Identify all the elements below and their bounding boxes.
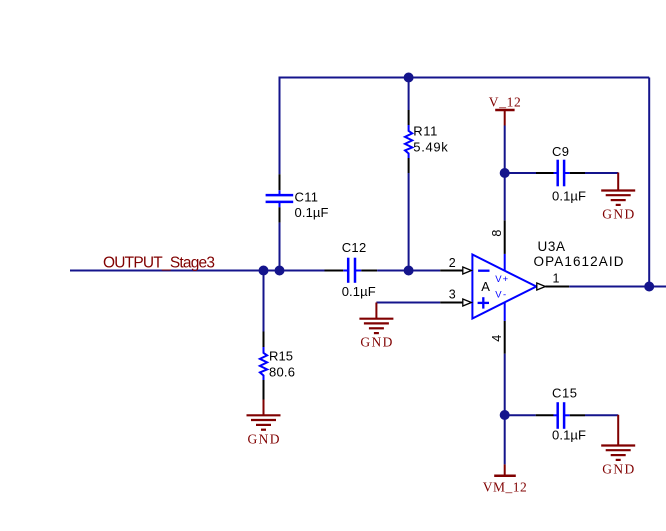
svg-text:0.1µF: 0.1µF xyxy=(552,188,586,203)
svg-text:R11: R11 xyxy=(413,123,437,138)
junction at C11 branch xyxy=(275,266,285,276)
svg-text:R15: R15 xyxy=(269,348,293,363)
svg-text:3: 3 xyxy=(449,288,456,302)
wire: pin8 to junction xyxy=(504,173,506,220)
svg-text:GND: GND xyxy=(248,431,280,446)
wire: left vertical to C11 top xyxy=(279,77,281,175)
junction at output feedback xyxy=(644,282,654,292)
junction at pin4/C15 xyxy=(500,410,510,420)
wire: output to right edge xyxy=(569,286,666,288)
svg-text:0.1µF: 0.1µF xyxy=(295,205,329,220)
ground GND right of C15 xyxy=(601,415,635,477)
capacitor C9 xyxy=(536,144,586,203)
svg-text:80.6: 80.6 xyxy=(269,364,295,379)
ground GND at pin3 xyxy=(359,303,393,350)
svg-text:V-: V- xyxy=(495,290,506,301)
wire: OUTPUT_Stage3 horizontal xyxy=(70,270,325,272)
svg-text:OPA1612AID: OPA1612AID xyxy=(534,254,624,269)
svg-text:GND: GND xyxy=(602,462,634,477)
svg-text:U3A: U3A xyxy=(538,239,566,254)
power VM_12 xyxy=(483,464,527,494)
resistor R11 xyxy=(405,78,448,271)
wire: pin4 to junction xyxy=(504,354,506,415)
wire: C11 bottom to junction xyxy=(279,223,281,271)
junction at R15 branch xyxy=(259,266,269,276)
wire: pin3 horizontal xyxy=(376,302,440,304)
svg-text:0.1µF: 0.1µF xyxy=(342,284,376,299)
junction at R11 bottom xyxy=(404,266,414,276)
wire: V_12 to junction xyxy=(504,126,506,174)
svg-text:V_12: V_12 xyxy=(489,95,521,110)
ground GND under R15 xyxy=(247,400,281,447)
svg-text:2: 2 xyxy=(449,256,456,270)
svg-text:VM_12: VM_12 xyxy=(483,480,527,495)
op-amp U3A xyxy=(440,220,624,353)
capacitor C11 xyxy=(266,174,329,222)
svg-text:GND: GND xyxy=(602,207,634,222)
svg-text:0.1µF: 0.1µF xyxy=(552,428,586,443)
wire: feedback top horizontal xyxy=(280,77,650,79)
svg-text:C9: C9 xyxy=(552,144,569,159)
svg-text:5.49k: 5.49k xyxy=(413,140,448,155)
svg-text:8: 8 xyxy=(490,230,504,237)
wire: C15 to GND corner xyxy=(585,414,618,416)
svg-text:OUTPUT_Stage3: OUTPUT_Stage3 xyxy=(103,255,215,272)
power V_12 xyxy=(489,95,521,126)
svg-text:GND: GND xyxy=(360,335,392,350)
junction at R11 top xyxy=(404,73,414,83)
wire: C12 to pin2 (through R11 junction) xyxy=(377,270,440,272)
capacitor C12 xyxy=(325,240,378,299)
wire: C9 to GND corner xyxy=(585,172,618,174)
svg-text:C12: C12 xyxy=(342,240,367,255)
wire: junction to C9 xyxy=(505,172,536,174)
wire: junction to VM_12 xyxy=(504,415,506,464)
svg-text:V+: V+ xyxy=(495,274,508,285)
svg-text:C11: C11 xyxy=(295,190,319,205)
resistor R15 xyxy=(260,271,295,400)
svg-text:1: 1 xyxy=(553,271,560,285)
wire: feedback right vertical xyxy=(648,78,650,287)
net label OUTPUT_Stage3 xyxy=(103,255,215,272)
svg-text:C15: C15 xyxy=(552,386,577,401)
junction at pin8/C9 xyxy=(500,168,510,178)
svg-text:4: 4 xyxy=(490,335,504,342)
svg-text:A: A xyxy=(481,279,490,294)
wire: junction to C15 xyxy=(505,414,536,416)
ground GND right of C9 xyxy=(601,173,635,222)
capacitor C15 xyxy=(536,386,586,443)
